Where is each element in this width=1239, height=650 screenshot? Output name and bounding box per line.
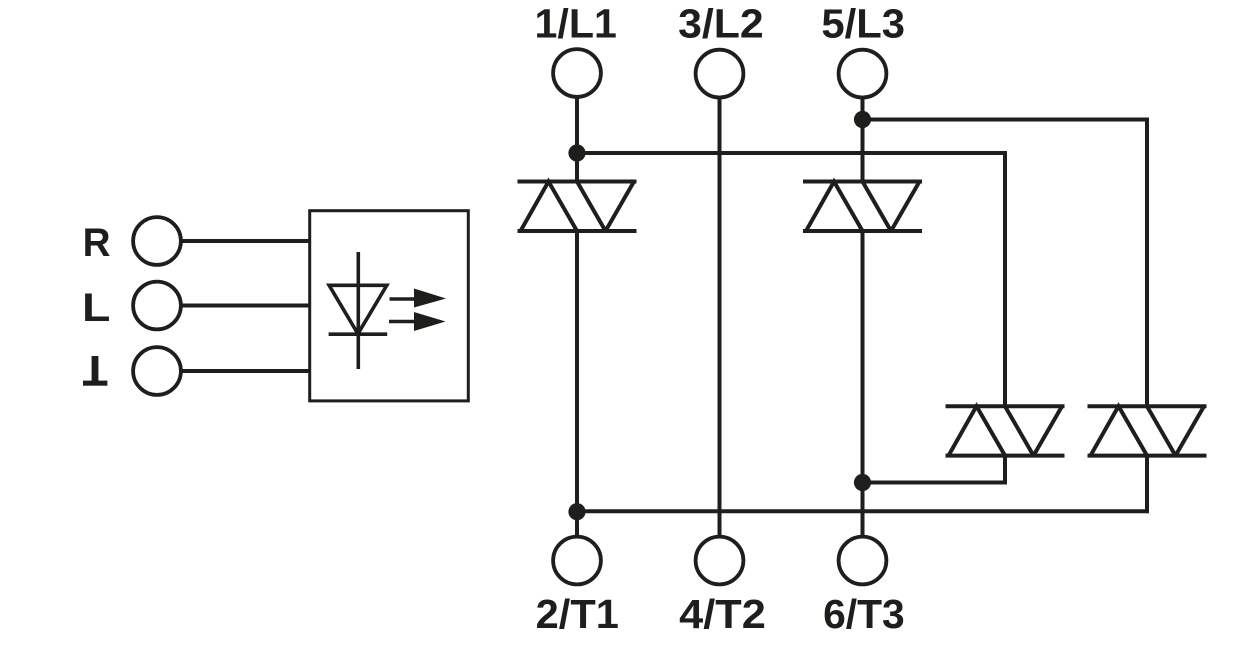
node junction T3 bbox=[854, 474, 871, 491]
terminal 3/L2 bbox=[696, 50, 744, 98]
light emission arrow 1 bbox=[390, 289, 447, 308]
wire bottom-left triac to T3 (vertical) bbox=[1003, 454, 1007, 485]
terminal 1/L1 bbox=[553, 49, 601, 97]
wire L3 vertical upper bbox=[861, 98, 865, 184]
wire L1 vertical upper bbox=[575, 97, 579, 183]
triac V1 (phase L1) bbox=[518, 182, 637, 232]
svg-text:2/T1: 2/T1 bbox=[536, 591, 619, 637]
svg-text:1/L1: 1/L1 bbox=[535, 1, 617, 47]
terminal 6/T3 bbox=[839, 537, 887, 585]
svg-text:R: R bbox=[83, 221, 111, 265]
wire vertical down to bottom-right triac bbox=[1145, 118, 1149, 408]
terminal 4/T2 bbox=[696, 537, 744, 585]
wire bottom-left triac to T3 (horizontal) bbox=[863, 481, 1007, 485]
terminal 2/T1 bbox=[553, 537, 601, 585]
wire bottom-right triac to T1 (horizontal) bbox=[577, 509, 1149, 513]
wire bus vertical down to bottom-left triac bbox=[1003, 151, 1007, 408]
wire L2 vertical bbox=[718, 98, 722, 537]
wire bus from L1 to bottom-left triac (horizontal) bbox=[577, 151, 1007, 155]
wire ground to control box bbox=[181, 369, 310, 373]
terminal 5/L3 bbox=[839, 50, 887, 98]
wire L1 vertical lower bbox=[575, 229, 579, 537]
wire L3 vertical lower bbox=[861, 229, 865, 537]
triac V4 (bottom right, reversing) bbox=[1088, 406, 1207, 455]
wire bottom-right triac to T1 (vertical) bbox=[1145, 454, 1149, 513]
node junction L3 top bbox=[854, 111, 871, 128]
terminal R bbox=[133, 217, 181, 265]
node junction L1 top bbox=[568, 144, 585, 161]
svg-text:5/L3: 5/L3 bbox=[821, 1, 905, 47]
label ground (up tack) bbox=[83, 356, 107, 386]
svg-text:L: L bbox=[82, 286, 110, 330]
light emission arrow 2 bbox=[389, 312, 446, 331]
svg-text:3/L2: 3/L2 bbox=[678, 1, 764, 47]
svg-text:6/T3: 6/T3 bbox=[823, 591, 905, 637]
terminal ground bbox=[133, 347, 181, 395]
svg-text:4/T2: 4/T2 bbox=[679, 591, 766, 637]
control box U1 bbox=[310, 211, 469, 401]
wire L to control box bbox=[181, 304, 310, 308]
wire R to control box bbox=[181, 239, 310, 243]
terminal L bbox=[133, 282, 181, 330]
node junction T1 bbox=[568, 503, 585, 520]
triac V3 (bottom left, reversing) bbox=[946, 406, 1065, 455]
LED D1 bbox=[329, 252, 388, 369]
wire from L3 junction to bottom-right triac (horizontal) bbox=[863, 118, 1149, 122]
triac V2 (phase L3) bbox=[803, 182, 922, 232]
